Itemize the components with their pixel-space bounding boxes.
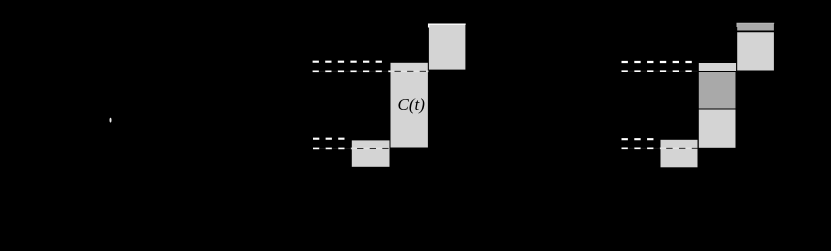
middle plot: tall gray box C(t) — [390, 62, 428, 148]
middle plot: dashed level line row4 (white underlay + black dashes) — [313, 147, 390, 149]
right plot: dashed level line row2 (white underlay + black dashes) — [622, 70, 698, 72]
svg-text:C(t): C(t) — [398, 95, 426, 114]
middle plot: label C(t) — [398, 95, 426, 114]
middle plot: top gray box — [428, 24, 466, 71]
right plot: light gray strip B — [698, 63, 736, 72]
right plot: dashed level line row4 (white underlay + black dashes) — [622, 147, 698, 149]
right plot: top box A with dark cap strip — [737, 23, 775, 72]
middle plot: dashed level line row2 (white underlay + black dashes) — [313, 70, 429, 72]
right plot: small gray box bottom-left — [660, 139, 698, 168]
right plot: dashed level line row1 (thick white) — [622, 61, 692, 63]
right plot: dashed level line row3 (thick white) — [622, 138, 654, 140]
middle plot: dashed level line row1 (thick white) — [313, 61, 382, 63]
left plot: white marker (open-circle fill) — [110, 118, 112, 123]
right plot: darker gray box C — [698, 72, 736, 110]
right plot: light gray box D — [698, 109, 736, 148]
middle plot: small gray box bottom-left — [351, 140, 390, 167]
middle plot: dashed level line row3 (thick white) — [313, 138, 345, 140]
